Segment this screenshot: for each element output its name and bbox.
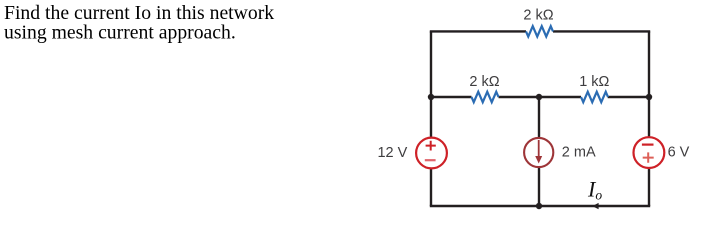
wire: middle segment node A to R2	[430, 96, 472, 98]
svg-text:2 kΩ: 2 kΩ	[523, 7, 553, 23]
resistor R3 1 kOhm (middle right)	[581, 92, 608, 102]
node B junction dot (center-middle)	[536, 94, 542, 100]
svg-text:using mesh current approach.: using mesh current approach.	[4, 21, 236, 43]
wire: bottom rail	[430, 205, 650, 207]
problem statement text	[4, 2, 274, 43]
wire: middle rail (middle node to bottom node)	[538, 97, 540, 206]
resistor R1 2 kOhm (top)	[526, 26, 553, 36]
svg-text:Io: Io	[587, 177, 602, 203]
svg-text:12 V: 12 V	[377, 145, 407, 161]
wire: middle segment R2 to node B	[499, 96, 582, 98]
node D junction dot (center-bottom)	[536, 203, 542, 209]
node C junction dot (right-middle)	[646, 94, 652, 100]
current Io arrowhead on bottom wire	[592, 203, 598, 209]
wire: middle segment R3 to node C	[608, 96, 651, 98]
wire: left rail (top corner to bottom corner)	[430, 31, 432, 206]
current source I1 2 mA	[524, 138, 553, 167]
resistor R2 2 kOhm (middle left)	[472, 92, 499, 102]
wire: right rail (top corner to bottom corner)	[648, 31, 650, 206]
voltage source V2 6 V	[634, 137, 665, 168]
svg-text:2 mA: 2 mA	[562, 145, 596, 161]
node A junction dot (left-middle)	[428, 94, 434, 100]
svg-text:1 kΩ: 1 kΩ	[579, 74, 609, 90]
voltage source V1 12 V	[416, 138, 447, 169]
wire: top segment left of R1	[430, 30, 526, 32]
svg-text:6 V: 6 V	[668, 145, 690, 161]
wire: top segment right of R1	[553, 30, 650, 32]
svg-text:2 kΩ: 2 kΩ	[469, 74, 499, 90]
